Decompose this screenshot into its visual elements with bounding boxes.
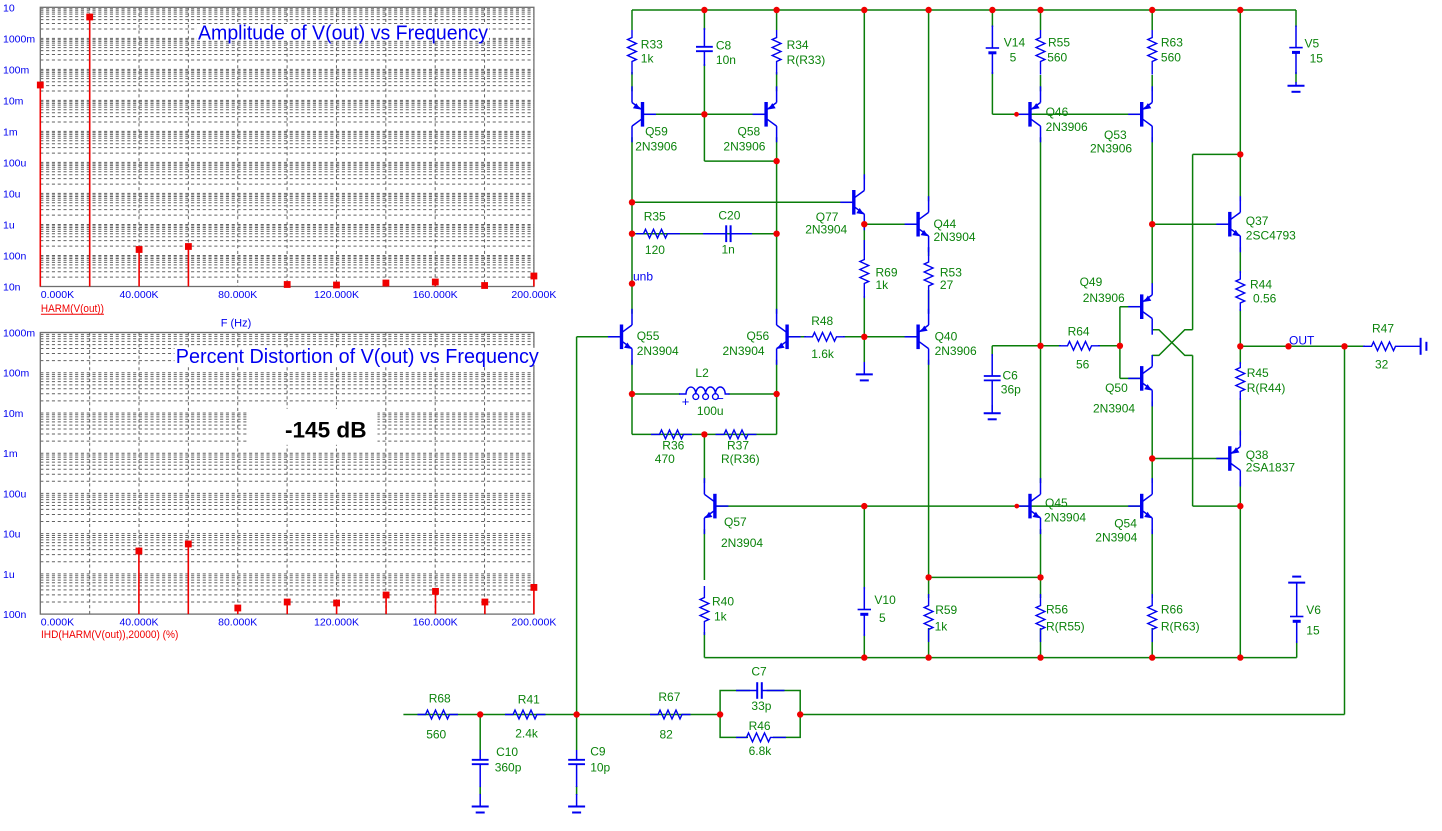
svg-text:Q45: Q45 <box>1045 496 1068 510</box>
svg-text:32: 32 <box>1375 357 1389 371</box>
wire V5 ground stub <box>1295 72 1297 83</box>
transistor Q54 2N3904 <box>1128 478 1152 534</box>
svg-text:100u: 100u <box>3 157 27 169</box>
svg-text:2SC4793: 2SC4793 <box>1246 229 1296 243</box>
wire R59 leads <box>928 577 930 657</box>
capacitor C8 <box>696 28 713 66</box>
svg-text:200.000K: 200.000K <box>511 617 556 629</box>
plot 2 x axis labels <box>41 617 557 629</box>
resistor R33 <box>628 30 637 75</box>
wire Q38 base wire <box>1152 458 1228 460</box>
svg-text:2N3904: 2N3904 <box>805 223 847 237</box>
wire Q58 collector tie-down <box>704 114 776 161</box>
svg-text:1k: 1k <box>714 610 728 624</box>
svg-text:36p: 36p <box>1001 382 1021 396</box>
svg-text:82: 82 <box>660 728 674 742</box>
wire Q37 collector line <box>1239 10 1241 201</box>
svg-text:R48: R48 <box>811 314 833 328</box>
svg-text:Q53: Q53 <box>1104 128 1127 142</box>
svg-text:0.56: 0.56 <box>1253 292 1277 306</box>
svg-text:560: 560 <box>1161 51 1181 65</box>
wire Q38 collector to bottom rail <box>1239 482 1241 658</box>
svg-text:1u: 1u <box>3 220 15 232</box>
wire Q49 collector cross to lower right <box>1152 330 1192 356</box>
wire R56 bottom lead <box>1040 628 1042 658</box>
svg-text:560: 560 <box>426 728 446 742</box>
wire R36 R37 row <box>632 433 777 435</box>
ground under R48 node <box>856 362 873 380</box>
wire Q49 base wire <box>1120 306 1140 308</box>
svg-text:2SA1837: 2SA1837 <box>1246 460 1296 474</box>
wire Q59 collector down to R35 node <box>631 137 633 313</box>
wire Q50 base wire <box>1120 377 1140 379</box>
transistor Q50 2N3904 <box>1128 355 1152 407</box>
plot 2 y axis labels <box>3 328 35 622</box>
svg-text:2N3906: 2N3906 <box>723 139 765 153</box>
wire C10 ground stub <box>479 786 481 795</box>
svg-text:120.000K: 120.000K <box>314 617 359 629</box>
resistor R59 <box>924 594 933 642</box>
svg-text:2N3906: 2N3906 <box>1090 142 1132 156</box>
svg-text:80.000K: 80.000K <box>218 617 257 629</box>
plot 1 legend HARM(V(out)) <box>41 303 104 315</box>
wire V5 top lead <box>1295 10 1297 27</box>
svg-text:0.000K: 0.000K <box>41 617 74 629</box>
wire R48 to ground node <box>843 336 864 338</box>
wire Q37 emitter to R44 <box>1239 247 1241 273</box>
wire R47 lead from OUT node <box>1345 345 1366 347</box>
wire V14 top lead <box>991 10 993 27</box>
resistor R67 <box>650 710 691 719</box>
svg-text:Q37: Q37 <box>1246 214 1269 228</box>
wire Q57 base row to Q45 and Q54 <box>717 505 1142 507</box>
resistor R46 <box>736 733 786 742</box>
capacitor C7 <box>736 682 785 699</box>
svg-text:100u: 100u <box>697 404 724 418</box>
svg-text:100n: 100n <box>3 609 27 621</box>
resistor R35 <box>636 229 680 238</box>
svg-text:V6: V6 <box>1306 603 1321 617</box>
wire Q53 collector down to Q49 emitter <box>1151 137 1153 283</box>
wire R34 to Q58 emitter <box>776 72 778 91</box>
svg-text:R41: R41 <box>518 693 540 707</box>
svg-text:1m: 1m <box>3 448 18 460</box>
svg-text:HARM(V(out)): HARM(V(out)) <box>41 303 104 315</box>
svg-text:L2: L2 <box>695 366 709 380</box>
svg-text:100m: 100m <box>3 64 30 76</box>
svg-text:5: 5 <box>1010 51 1017 65</box>
wire R55 to Q46 emitter <box>1040 75 1042 91</box>
svg-text:10n: 10n <box>3 282 21 294</box>
svg-text:27: 27 <box>940 278 954 292</box>
resistor R48 <box>804 332 845 341</box>
svg-text:Q59: Q59 <box>645 124 668 138</box>
minus sign for L2 <box>716 391 724 406</box>
wire Q55 emitter to L2 <box>631 360 633 394</box>
ground for R47 <box>1421 338 1427 355</box>
wire R53 to Q40 emitter <box>928 290 930 314</box>
wire Q46 collector down to C6 node and Q45 <box>1040 137 1042 483</box>
wire Q59 base to Q58 base <box>643 113 767 115</box>
wire R55 top lead <box>1040 10 1042 30</box>
svg-text:10n: 10n <box>716 53 736 67</box>
svg-text:6.8k: 6.8k <box>749 744 773 758</box>
wire R34 top lead <box>776 10 778 30</box>
ground for V5 <box>1288 82 1305 92</box>
svg-text:R66: R66 <box>1161 603 1183 617</box>
svg-text:10u: 10u <box>3 188 21 200</box>
wire Q50 emitter down to Q38 base node <box>1151 401 1153 458</box>
wire Q58 collector / Q56 collector column <box>776 137 778 313</box>
inductor L2 <box>679 387 730 400</box>
transistor Q56 2N3904 <box>777 309 801 365</box>
svg-text:R(R44): R(R44) <box>1247 381 1286 395</box>
wire R46 branch box bottom <box>720 715 800 738</box>
svg-text:2N3906: 2N3906 <box>935 344 977 358</box>
svg-text:Q54: Q54 <box>1114 517 1137 531</box>
svg-text:R45: R45 <box>1247 366 1269 380</box>
svg-text:560: 560 <box>1047 51 1067 65</box>
resistor R53 <box>924 247 933 314</box>
resistor R69 <box>860 240 869 298</box>
transistor Q38 2SA1837 <box>1216 431 1240 487</box>
svg-text:Q56: Q56 <box>747 329 770 343</box>
wire C7 branch box top <box>720 691 800 715</box>
plot 1 grid and frame <box>40 7 534 286</box>
wire L2 leads <box>632 393 777 395</box>
svg-text:-145 dB: -145 dB <box>285 417 367 442</box>
svg-text:470: 470 <box>655 452 675 466</box>
wire C6 top lead <box>991 346 993 356</box>
svg-text:0.000K: 0.000K <box>41 289 74 301</box>
wire Q56 emitter to L2 right <box>776 360 778 394</box>
resistor R37 <box>716 430 757 439</box>
wire feedback column Q55 base down to input row <box>576 337 578 715</box>
wire R45 leads <box>1239 346 1241 435</box>
battery V14 <box>986 26 999 75</box>
plot 1 x axis labels <box>41 289 557 301</box>
svg-text:C10: C10 <box>496 745 518 759</box>
svg-text:2N3904: 2N3904 <box>934 230 976 244</box>
wire Q53 collector tap for Q37 base <box>0 0 1 1</box>
svg-text:1k: 1k <box>935 620 949 634</box>
svg-text:1k: 1k <box>876 278 890 292</box>
resistor R40 <box>700 586 709 635</box>
transistor Q55 2N3904 <box>608 309 632 365</box>
svg-text:10u: 10u <box>3 529 21 541</box>
transistor Q57 2N3904 <box>704 478 728 534</box>
svg-text:1.6k: 1.6k <box>811 347 835 361</box>
plot 1 y axis labels <box>3 2 35 293</box>
transistor Q45 2N3904 <box>1017 478 1041 534</box>
pin connection dots <box>1014 112 1019 509</box>
wire R69 to ground node <box>863 296 865 337</box>
capacitor C9 <box>568 750 585 787</box>
svg-text:R40: R40 <box>712 595 734 609</box>
wire R64 row <box>1041 345 1120 347</box>
wire V6 bottom lead <box>1296 641 1298 658</box>
svg-text:120: 120 <box>645 243 665 257</box>
svg-text:Amplitude of V(out) vs Frequen: Amplitude of V(out) vs Frequency <box>198 22 488 44</box>
svg-text:10m: 10m <box>3 408 24 420</box>
svg-text:C7: C7 <box>751 665 767 679</box>
svg-text:R68: R68 <box>429 692 451 706</box>
svg-text:2.4k: 2.4k <box>515 727 539 741</box>
svg-text:1n: 1n <box>722 243 735 257</box>
wire Q44 base from Q77 emitter <box>864 223 916 225</box>
wire R33 to Q59 emitter <box>631 72 633 91</box>
svg-text:R34: R34 <box>787 38 809 52</box>
svg-text:160.000K: 160.000K <box>413 617 458 629</box>
wire Q54 emitter to R66 <box>1151 529 1153 658</box>
battery V5 <box>1289 26 1302 75</box>
svg-text:5: 5 <box>879 611 886 625</box>
resistor R47 <box>1363 342 1421 351</box>
svg-text:R(R36): R(R36) <box>721 452 760 466</box>
svg-text:R47: R47 <box>1372 322 1394 336</box>
wire bottom rail <box>704 657 1296 659</box>
svg-text:2N3904: 2N3904 <box>721 536 763 550</box>
wire V14 to Q46 base <box>992 72 1028 114</box>
svg-text:Q44: Q44 <box>934 217 957 231</box>
wire ground stub under R48 node <box>863 337 865 362</box>
plot 2 title white backing <box>175 348 541 365</box>
svg-text:2N3904: 2N3904 <box>1095 530 1137 544</box>
wire Q40 collector down to R59 node <box>928 360 930 578</box>
transistor Q59 2N3906 <box>632 86 656 142</box>
svg-text:33p: 33p <box>751 699 771 713</box>
transistor Q46 2N3906 <box>1017 86 1041 142</box>
wire R63 top lead <box>1151 10 1153 30</box>
svg-text:R36: R36 <box>662 439 684 453</box>
svg-text:15: 15 <box>1306 624 1320 638</box>
transistor Q40 2N3906 <box>905 309 929 365</box>
wire Q50 collector cross to upper right <box>1152 330 1192 356</box>
wire OUT row <box>1240 345 1344 347</box>
svg-text:1000m: 1000m <box>3 33 35 45</box>
wire Q54 collector up to Q38 base node <box>1151 459 1153 484</box>
transistor Q37 2SC4793 <box>1216 196 1240 252</box>
svg-text:R55: R55 <box>1048 36 1070 50</box>
svg-text:IHD(HARM(V(out)),20000) (%): IHD(HARM(V(out)),20000) (%) <box>41 629 178 641</box>
battery V6 <box>1290 617 1303 644</box>
svg-text:Q58: Q58 <box>738 124 761 138</box>
wire Q40 base wire <box>864 336 916 338</box>
svg-text:R56: R56 <box>1046 603 1068 617</box>
wire R33 top lead <box>631 10 633 30</box>
svg-text:R64: R64 <box>1068 324 1090 338</box>
wire R44 to OUT <box>1239 309 1241 346</box>
svg-text:1k: 1k <box>641 52 655 66</box>
transistor Q58 2N3906 <box>753 86 777 142</box>
svg-text:C20: C20 <box>718 209 740 223</box>
plot 1 title white backing <box>197 24 489 41</box>
resistor R63 <box>1148 30 1157 75</box>
resistor R56 <box>1036 594 1045 642</box>
svg-text:Q50: Q50 <box>1105 381 1128 395</box>
svg-text:1m: 1m <box>3 126 18 138</box>
svg-text:100n: 100n <box>3 251 27 263</box>
resistor R66 <box>1148 594 1157 642</box>
wire cross upper-right up to Q37 collector node <box>1193 154 1241 329</box>
svg-text:2N3904: 2N3904 <box>723 344 765 358</box>
wire C10 top lead <box>479 715 481 751</box>
svg-text:C8: C8 <box>716 39 732 53</box>
svg-text:R44: R44 <box>1250 278 1272 292</box>
plot 2 annotation -145 dB <box>285 417 367 442</box>
svg-text:160.000K: 160.000K <box>413 289 458 301</box>
svg-text:+: + <box>682 394 690 409</box>
svg-text:10m: 10m <box>3 95 24 107</box>
wire input row left <box>403 714 720 716</box>
plot 1 red harmonic stems HARM(V(out)) <box>37 14 537 289</box>
transistor Q77 2N3904 <box>840 174 864 230</box>
capacitor C10 <box>472 750 489 787</box>
svg-text:120.000K: 120.000K <box>314 289 359 301</box>
svg-text:2N3906: 2N3906 <box>1083 291 1125 305</box>
svg-text:R(R55): R(R55) <box>1046 620 1085 634</box>
capacitor C20 <box>703 225 752 242</box>
wire L2 left to R36 <box>631 394 633 434</box>
svg-text:2N3904: 2N3904 <box>1044 511 1086 525</box>
node label OUT <box>1289 334 1315 348</box>
svg-text:F (Hz): F (Hz) <box>221 318 252 330</box>
svg-text:Q49: Q49 <box>1080 275 1103 289</box>
svg-text:Q46: Q46 <box>1046 105 1069 119</box>
transistor Q49 2N3906 <box>1128 283 1152 335</box>
wire cross lower-right down to Q38 collector node <box>1193 355 1241 506</box>
svg-text:R63: R63 <box>1161 36 1183 50</box>
svg-text:2N3906: 2N3906 <box>1046 120 1088 134</box>
wire Q37 base wire <box>1152 223 1228 225</box>
svg-text:Q55: Q55 <box>637 329 660 343</box>
svg-text:360p: 360p <box>495 761 522 775</box>
svg-text:2N3906: 2N3906 <box>635 139 677 153</box>
plot 2 legend IHD <box>41 629 178 641</box>
wire C9 ground stub <box>576 786 578 795</box>
wire R59 top row <box>929 576 1041 578</box>
wire C6 row <box>992 345 1040 347</box>
plot 2 grid and frame <box>40 333 534 615</box>
svg-text:Percent Distortion of V(out) v: Percent Distortion of V(out) vs Frequenc… <box>176 346 539 368</box>
svg-text:Q40: Q40 <box>935 330 958 344</box>
svg-text:56: 56 <box>1076 357 1090 371</box>
wire Q46 base to Q53 base <box>1030 113 1142 115</box>
wire R40 to bottom rail <box>703 632 705 658</box>
plot 1 title <box>198 22 488 44</box>
wire Q56 base to R48 <box>789 336 806 338</box>
svg-text:100m: 100m <box>3 368 30 380</box>
wire feedback from OUT down <box>1344 346 1346 714</box>
resistor R45 <box>1236 362 1245 400</box>
svg-text:1000m: 1000m <box>3 328 35 340</box>
svg-text:OUT: OUT <box>1289 334 1315 348</box>
transistor Q53 2N3906 <box>1128 86 1152 142</box>
svg-text:R37: R37 <box>727 439 749 453</box>
battery V10 <box>858 587 871 636</box>
svg-text:unb: unb <box>633 270 653 284</box>
plot 1 x axis title F (Hz) <box>221 318 252 330</box>
wire R36 R37 mid node down to Q57 collector <box>703 434 705 483</box>
wire C8 top <box>703 10 705 114</box>
wire R35 C20 row <box>632 233 777 235</box>
resistor R34 <box>772 30 781 75</box>
annotation white backing <box>247 409 378 445</box>
svg-text:V14: V14 <box>1004 36 1026 50</box>
svg-text:C9: C9 <box>590 745 606 759</box>
wire Q77 collector line <box>863 10 865 179</box>
wire V10 bottom lead <box>863 634 865 658</box>
svg-text:1u: 1u <box>3 569 15 581</box>
svg-text:V5: V5 <box>1305 37 1320 51</box>
wire top supply rail <box>632 9 1296 11</box>
wire Q77 emitter to R69 <box>863 225 865 250</box>
wire Q49 Q50 base column <box>1119 307 1121 379</box>
svg-text:R59: R59 <box>935 603 957 617</box>
ground under C9 <box>568 794 585 813</box>
resistor R68 <box>418 710 459 719</box>
svg-text:100u: 100u <box>3 488 27 500</box>
svg-text:R35: R35 <box>644 210 666 224</box>
svg-text:R(R33): R(R33) <box>787 53 826 67</box>
ground above V6 <box>1288 577 1305 617</box>
svg-text:2N3904: 2N3904 <box>637 344 679 358</box>
wire C9 top lead <box>576 715 578 751</box>
resistor R36 <box>651 430 692 439</box>
wire Q45 emitter to R56 <box>1040 529 1042 598</box>
svg-text:R67: R67 <box>658 690 680 704</box>
svg-text:R(R63): R(R63) <box>1161 620 1200 634</box>
svg-text:R46: R46 <box>749 719 771 733</box>
ground under C6 <box>984 405 1001 419</box>
capacitor C6 <box>984 354 1001 410</box>
ground under C10 <box>472 794 489 813</box>
wire Q77 base row <box>632 201 852 203</box>
plus sign for L2 <box>682 394 690 409</box>
wire feedback bottom row <box>800 714 1344 716</box>
wire V10 branch <box>863 506 865 589</box>
resistor R44 <box>1236 271 1245 311</box>
svg-text:V10: V10 <box>874 593 896 607</box>
svg-text:40.000K: 40.000K <box>119 617 158 629</box>
transistor Q44 2N3904 <box>905 196 929 252</box>
svg-text:40.000K: 40.000K <box>119 289 158 301</box>
wire Q57 emitter to R40 <box>703 529 705 580</box>
svg-text:10: 10 <box>3 2 15 14</box>
svg-text:200.000K: 200.000K <box>511 289 556 301</box>
svg-text:C6: C6 <box>1003 368 1019 382</box>
plot 2 red distortion stems <box>136 541 538 615</box>
svg-text:10p: 10p <box>590 760 610 774</box>
resistor R41 <box>505 710 546 719</box>
svg-text:80.000K: 80.000K <box>218 289 257 301</box>
wire Q55 base wire <box>577 336 620 338</box>
wire R63 to Q53 emitter <box>1151 75 1153 91</box>
svg-text:Q57: Q57 <box>724 515 747 529</box>
wire L2 right to R37 <box>776 394 778 434</box>
resistor R64 <box>1059 341 1100 350</box>
svg-text:15: 15 <box>1310 51 1324 65</box>
node label unb <box>633 270 653 284</box>
resistor R55 <box>1036 30 1045 75</box>
wire Q44 collector line <box>928 10 930 201</box>
svg-text:2N3904: 2N3904 <box>1093 402 1135 416</box>
plot 2 title <box>176 346 539 368</box>
svg-text:R33: R33 <box>641 38 663 52</box>
wire Q44 emitter to R53 <box>928 247 930 256</box>
